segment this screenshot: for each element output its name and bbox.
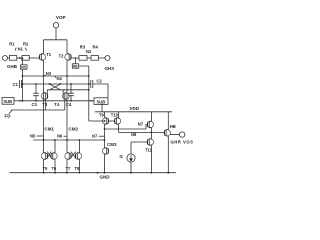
- transistor T1: [38, 51, 46, 64]
- wire cross couple B: [50, 84, 61, 90]
- svg-text:GHR VOS: GHR VOS: [171, 140, 194, 145]
- wire T2 gate to R3: [73, 57, 79, 59]
- svg-text:R4: R4: [93, 45, 99, 50]
- label R1: [9, 41, 15, 46]
- transistor T4: [63, 93, 70, 110]
- label T3: [42, 102, 48, 107]
- wire CM2 cross: [71, 152, 76, 158]
- resistor R5: [21, 65, 27, 69]
- label GHX: [105, 66, 115, 71]
- label CM1: [45, 126, 55, 131]
- svg-text:N4: N4: [57, 76, 63, 81]
- node N8: [131, 132, 137, 137]
- label T1: [46, 52, 52, 57]
- terminal GHX: [105, 56, 110, 61]
- wire SUB right to rail: [101, 104, 103, 111]
- node N7 left: [92, 133, 98, 138]
- svg-text:N1: N1: [18, 46, 24, 51]
- svg-text:T2: T2: [59, 54, 65, 59]
- junction N8: [151, 132, 153, 134]
- wire cross couple A: [50, 84, 61, 90]
- transistor T5: [41, 139, 48, 173]
- label C2: [97, 79, 103, 84]
- label VDD: [130, 106, 140, 111]
- wire node N8: [119, 131, 165, 133]
- svg-text:VOP: VOP: [56, 15, 66, 20]
- svg-text:R3: R3: [80, 45, 86, 50]
- label R2: [23, 41, 29, 46]
- junction W1 right: [88, 75, 90, 77]
- label R3: [80, 45, 86, 50]
- resistor R6: [75, 58, 77, 64]
- node VOP: [56, 15, 66, 20]
- svg-text:T1: T1: [46, 52, 52, 57]
- wire N3 N4: [23, 75, 89, 77]
- wire N5 N6 rail: [33, 139, 105, 141]
- label C3: [32, 102, 38, 107]
- wire R1 to R2: [17, 57, 22, 59]
- node N4: [57, 76, 63, 81]
- wire R5 to substrate rail: [22, 69, 24, 101]
- node N2: [86, 49, 92, 54]
- svg-text:N3: N3: [46, 71, 52, 76]
- capacitor C2: [89, 80, 108, 98]
- label GHB: [7, 64, 18, 69]
- junction CM3 gate: [104, 139, 106, 141]
- wire R2 to T1 gate: [29, 57, 38, 59]
- svg-text:CM2: CM2: [69, 126, 79, 131]
- wire GHB to R1: [7, 57, 9, 59]
- junction gate net left: [22, 83, 24, 85]
- svg-text:CM1: CM1: [45, 126, 55, 131]
- junction R5 tap: [22, 57, 24, 59]
- svg-text:T10: T10: [111, 112, 119, 117]
- substrate contact left SUB: [2, 98, 14, 105]
- label HB: [170, 124, 176, 129]
- svg-text:C1: C1: [13, 82, 19, 87]
- svg-text:VDD: VDD: [130, 106, 140, 111]
- transistor T9: [102, 112, 108, 129]
- wire SUB left stub: [14, 100, 23, 102]
- svg-text:R2: R2: [23, 41, 29, 46]
- svg-text:T3: T3: [42, 102, 48, 107]
- svg-text:N5: N5: [30, 133, 36, 138]
- svg-text:C4: C4: [66, 102, 72, 107]
- capacitor C4: [70, 83, 72, 85]
- label T6: [52, 166, 58, 171]
- junction R6 tap: [75, 57, 77, 59]
- wire output stub: [170, 134, 179, 136]
- terminal GHR VOS: [180, 132, 185, 137]
- resistor R3: [79, 56, 87, 61]
- node FD rail: [11, 109, 65, 111]
- current source I1: [127, 142, 135, 173]
- svg-text:T6: T6: [52, 166, 58, 171]
- transistor T7: [65, 139, 72, 173]
- wire T9 T10 gate tie: [108, 120, 115, 122]
- transistor T11: [131, 132, 154, 172]
- svg-text:R6: R6: [73, 64, 77, 68]
- junction N1: [19, 57, 21, 59]
- svg-text:C3: C3: [32, 102, 38, 107]
- wire node N7 rail: [105, 125, 148, 130]
- label GND: [100, 175, 111, 180]
- label T7: [66, 166, 72, 171]
- node N3: [46, 71, 52, 76]
- label T5: [43, 166, 49, 171]
- ground junctions: [43, 172, 45, 174]
- capacitor C3: [35, 83, 37, 85]
- ground rail: [10, 172, 177, 174]
- resistor R1: [9, 56, 16, 61]
- label GHR VOS: [171, 140, 194, 145]
- svg-text:SUB: SUB: [97, 99, 106, 104]
- svg-text:N6: N6: [57, 133, 63, 138]
- label T4: [54, 102, 60, 107]
- junction cross rail right: [88, 89, 90, 91]
- wire R4 to GHX: [99, 57, 106, 59]
- label T10: [111, 112, 119, 117]
- junction W1 left: [22, 75, 24, 77]
- svg-text:T7: T7: [66, 166, 72, 171]
- transistor CM3 device: [102, 129, 108, 173]
- junction N7: [104, 128, 106, 130]
- svg-text:I1: I1: [120, 154, 124, 159]
- label T11: [145, 148, 153, 153]
- wire VDD rail: [95, 111, 172, 113]
- wire cross gate rail: [47, 90, 89, 93]
- wire top rail: [44, 40, 68, 51]
- svg-text:FD: FD: [5, 114, 12, 119]
- capacitor C1: [19, 80, 22, 88]
- svg-text:T5: T5: [43, 166, 49, 171]
- wire T1 drain column: [43, 64, 45, 141]
- wire CM1 cross: [47, 152, 51, 158]
- label I1: [120, 154, 124, 159]
- label T9: [99, 112, 105, 117]
- node N7: [138, 122, 144, 127]
- wire R3 to R4: [87, 57, 91, 59]
- transistor T6: [51, 139, 58, 173]
- svg-text:HB: HB: [170, 124, 176, 129]
- node N1: [18, 46, 24, 51]
- label CM3: [107, 142, 117, 147]
- transistor T10: [114, 112, 120, 133]
- svg-text:R1: R1: [9, 41, 15, 46]
- node N5: [30, 133, 36, 138]
- wire substrate rail: [23, 100, 95, 102]
- resistor R2: [22, 56, 29, 61]
- resistor R4: [91, 56, 99, 61]
- label R4: [93, 45, 99, 50]
- svg-text:T8: T8: [75, 166, 81, 171]
- junction T1 drain: [43, 75, 45, 77]
- transistor T8: [75, 139, 82, 173]
- svg-text:C2: C2: [97, 79, 103, 84]
- svg-text:SUB: SUB: [3, 99, 12, 104]
- svg-text:N7: N7: [92, 133, 98, 138]
- terminal GHB: [3, 56, 8, 61]
- svg-text:GHB: GHB: [7, 64, 18, 69]
- svg-text:T4: T4: [54, 102, 60, 107]
- transistor T2: [65, 51, 73, 64]
- svg-text:GHX: GHX: [105, 66, 115, 71]
- transistor T3: [41, 93, 48, 110]
- svg-text:CM3: CM3: [107, 142, 117, 147]
- junction cross B: [49, 83, 51, 85]
- junction T2 drain: [66, 75, 68, 77]
- transistor output HB: [164, 112, 170, 173]
- label T8: [75, 166, 81, 171]
- label C4: [66, 102, 72, 107]
- svg-text:GND: GND: [100, 175, 111, 180]
- svg-text:T9: T9: [99, 112, 105, 117]
- wire R6 to right drop: [79, 66, 89, 121]
- label FD: [5, 114, 12, 119]
- label T2: [59, 54, 65, 59]
- junction cross A: [60, 83, 62, 85]
- svg-text:R5: R5: [21, 65, 25, 69]
- svg-text:N2: N2: [86, 49, 92, 54]
- node N6: [57, 133, 63, 138]
- wire gate feed: [89, 120, 105, 122]
- svg-text:N7: N7: [138, 122, 144, 127]
- svg-text:T11: T11: [145, 148, 153, 153]
- wire gate net: [23, 83, 89, 85]
- terminal VOP: [53, 23, 58, 28]
- transistor U1: [147, 112, 153, 133]
- wire T2 drain column: [66, 64, 68, 141]
- svg-text:N8: N8: [131, 132, 137, 137]
- label C1: [13, 82, 19, 87]
- label CM2: [69, 126, 79, 131]
- substrate contact right SUB: [94, 98, 108, 105]
- wire VOP to rail: [55, 28, 57, 40]
